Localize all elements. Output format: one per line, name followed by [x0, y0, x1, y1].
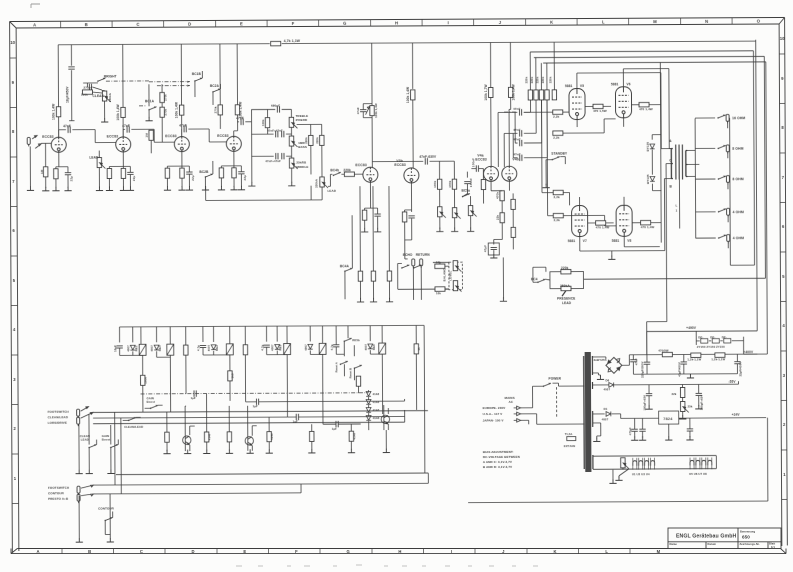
svg-text:470 1,5W: 470 1,5W — [593, 109, 607, 113]
svg-text:470µF: 470µF — [628, 427, 632, 435]
heater U7 — [702, 460, 706, 465]
svg-text:RE4: RE4 — [158, 345, 162, 351]
ground out cap — [686, 436, 693, 440]
potentiometer MIDDLE 25kRB — [289, 158, 297, 169]
resistor cathode V2a — [165, 168, 169, 178]
svg-text:100k 1,4W: 100k 1,4W — [175, 102, 179, 118]
cathode network V1b — [109, 152, 130, 169]
svg-text:ECC83: ECC83 — [394, 163, 405, 167]
svg-text:U.S.A.- 117 V: U.S.A.- 117 V — [483, 412, 503, 416]
ground bottom row — [163, 450, 170, 454]
wire screen supply bus — [649, 62, 661, 242]
potentiometer BASS 1MR — [289, 136, 297, 147]
jack footswitch 2a — [77, 486, 80, 495]
switch POWER — [548, 377, 561, 381]
wire fsw loop verticals — [115, 412, 122, 494]
svg-text:4xBY255: 4xBY255 — [593, 358, 606, 362]
svg-text:G: G — [343, 21, 346, 26]
svg-text:4148: 4148 — [352, 433, 356, 440]
svg-text:25kRB: 25kRB — [296, 160, 307, 164]
label presence lead — [557, 297, 575, 305]
wire echo column b — [372, 186, 374, 271]
svg-text:+400V: +400V — [743, 350, 754, 354]
svg-text:BC4: BC4 — [531, 277, 538, 281]
svg-text:N: N — [705, 19, 708, 24]
svg-text:270k: 270k — [164, 109, 168, 116]
cathode network V2a — [167, 152, 189, 169]
resistor 1k column — [184, 345, 188, 355]
svg-text:Datum: Datum — [708, 542, 717, 546]
relay RE1 — [139, 344, 146, 355]
svg-text:RE3: RE3 — [278, 344, 282, 350]
tube V5 5881 — [569, 89, 585, 120]
resistor cathode V2b 2 — [232, 168, 236, 178]
wire plate V1a — [58, 117, 60, 137]
ruler letters top — [33, 19, 761, 28]
potentiometer mixer c — [468, 206, 476, 217]
svg-text:1µF: 1µF — [253, 404, 258, 408]
wire mains to switch — [521, 386, 585, 424]
wire bus drop V4a — [490, 43, 492, 88]
svg-text:220k: 220k — [304, 137, 308, 144]
switch GAIN Boost mid — [147, 396, 155, 404]
svg-text:4,7µ: 4,7µ — [330, 344, 334, 350]
switch send — [401, 265, 409, 269]
svg-text:220k: 220k — [530, 76, 534, 83]
resistor bottom row 4 — [267, 432, 271, 442]
wire V3b cathode follower — [404, 183, 411, 212]
resistor echo a — [358, 271, 362, 281]
transformer mains primary — [583, 356, 586, 469]
capacitor 47nF bass b — [282, 131, 284, 137]
svg-text:A: A — [33, 22, 36, 27]
wire V6 plate to OT — [623, 69, 671, 149]
diode 4007 relay2 — [154, 345, 159, 350]
PI tail resistor 470k — [500, 191, 504, 201]
heater U2 — [639, 461, 643, 466]
ground BC2b — [202, 186, 209, 190]
ground cathode V2a b — [178, 186, 185, 190]
svg-text:D: D — [192, 549, 195, 554]
capacitor cathode V3a — [374, 214, 380, 216]
svg-text:1,2k-1,1W: 1,2k-1,1W — [711, 357, 725, 361]
wire OT secondary to jacks — [687, 118, 700, 238]
capacitor 10uF relay1 — [116, 346, 122, 348]
resistor R plate V1a 100k 1.4W — [56, 107, 60, 117]
svg-text:D: D — [188, 22, 191, 27]
switch RE5b — [344, 338, 352, 342]
heater U6 — [696, 460, 700, 465]
svg-text:250kA: 250kA — [314, 179, 318, 188]
svg-text:ECC83: ECC83 — [355, 163, 366, 167]
svg-text:100nF: 100nF — [471, 158, 475, 167]
ground mixer a — [436, 228, 443, 232]
svg-text:FOOTSWITCH: FOOTSWITCH — [48, 486, 69, 490]
capacitor 1uF a — [194, 390, 196, 396]
capacitor 47uF PI boxed — [491, 247, 497, 249]
rectifier bridge 4xBY255 — [606, 357, 622, 373]
switch BC4b — [333, 172, 341, 176]
wire plate V3b — [412, 100, 414, 168]
ground bottom row 2 — [203, 449, 210, 453]
diode 4148 stack d — [366, 416, 371, 421]
connector mains E — [514, 419, 521, 423]
capacitor 47nF coupling V1b — [123, 129, 125, 137]
transistor Q3 — [381, 415, 389, 424]
diode 4007 bias — [609, 382, 614, 387]
svg-text:2,2k: 2,2k — [553, 136, 559, 140]
ground echo c — [386, 298, 393, 302]
wire bright feed — [83, 83, 98, 87]
svg-text:100k 1,4W: 100k 1,4W — [374, 103, 378, 118]
diode 4007 relay3 — [211, 345, 216, 350]
svg-text:ENGL Gerätebau GmbH: ENGL Gerätebau GmbH — [676, 534, 736, 540]
svg-text:47nF: 47nF — [63, 124, 71, 128]
svg-text:100nF: 100nF — [469, 178, 473, 187]
svg-text:18µF/450V: 18µF/450V — [65, 86, 69, 103]
svg-text:47µF/450V: 47µF/450V — [677, 362, 681, 377]
ground bottom row 4 — [266, 449, 273, 453]
svg-text:ECC83: ECC83 — [107, 134, 118, 138]
svg-text:4007: 4007 — [150, 345, 154, 352]
svg-text:2,2k: 2,2k — [553, 115, 559, 119]
capacitor 47nF mid b — [282, 153, 284, 159]
transformer OT secondary — [686, 150, 688, 176]
tube V2b ECC83 — [226, 136, 241, 151]
svg-text:BASS: BASS — [298, 145, 307, 149]
ground cathode V2b c — [238, 186, 245, 190]
svg-text:C: C — [140, 549, 143, 554]
ground 24v caps — [631, 436, 638, 440]
transformer mains core — [585, 352, 592, 472]
capacitor cathode V2a — [186, 172, 192, 174]
jack 4 OHM a — [696, 211, 716, 213]
resistor 220k mixer b — [320, 135, 324, 145]
svg-text:Boost: Boost — [102, 437, 110, 441]
title block — [668, 528, 781, 549]
svg-text:22k: 22k — [495, 215, 499, 221]
capacitor 4.7uF relay6 — [333, 345, 339, 347]
potentiometer CLEAN 250kA — [102, 91, 110, 102]
svg-text:RETURN: RETURN — [416, 253, 430, 257]
wire cathodes power tubes — [577, 118, 624, 206]
capacitor 47nF coupling V2a — [181, 129, 183, 137]
resistor 220k grid common — [552, 90, 556, 100]
svg-text:4007: 4007 — [604, 387, 611, 391]
label footswitch 2 — [48, 486, 69, 501]
ground tail — [500, 297, 507, 301]
wire bus drop stage1 — [57, 45, 59, 107]
svg-text:10: 10 — [780, 36, 785, 41]
svg-text:BC5a: BC5a — [461, 189, 470, 193]
ground fsw stub b — [107, 538, 114, 542]
resistor cathode V2b — [219, 168, 223, 178]
resistor 220k grid V6 — [534, 90, 538, 100]
svg-text:BC2B: BC2B — [199, 170, 209, 174]
potentiometer LEVEL — [453, 281, 461, 292]
wire bus drop V3b — [412, 43, 414, 89]
wire -55V rail — [592, 381, 738, 385]
svg-text:4007: 4007 — [602, 417, 609, 421]
svg-text:4148: 4148 — [270, 433, 274, 440]
wire send line — [405, 258, 408, 260]
ground fsw jack sleeve — [76, 470, 83, 474]
wire plate V2a — [181, 115, 183, 136]
svg-text:1: 1 — [676, 209, 678, 213]
svg-text:STANDBY: STANDBY — [551, 152, 568, 156]
capacitor 18uF/450V — [70, 45, 72, 121]
wire power switch linkage — [556, 387, 558, 418]
tube V3b ECC83 — [404, 168, 419, 183]
resistor cathode V2a 2 — [180, 168, 184, 178]
capacitor 47nF plate V3a parallel — [360, 110, 366, 112]
resistor 100k 1.4W plate V4b — [508, 87, 512, 97]
svg-text:B: B — [88, 549, 91, 554]
capacitor 47nF bass a — [276, 131, 278, 137]
resistor 470R 1.4W screen V6 — [639, 102, 649, 106]
svg-text:47µF: 47µF — [483, 245, 487, 252]
transistor Q1 — [183, 436, 191, 445]
capacitor 47nF mid a — [276, 153, 278, 159]
svg-text:47nF+47nF: 47nF+47nF — [267, 129, 283, 133]
resistor 220k mixer a — [309, 135, 313, 145]
svg-text:47nF: 47nF — [122, 124, 130, 128]
wire contour lines — [93, 473, 428, 494]
resistor bottom row 6 — [349, 431, 353, 441]
svg-text:RE1: RE1 — [134, 345, 138, 351]
switch BC4 presence — [537, 279, 545, 283]
svg-text:220µF/500V: 220µF/500V — [640, 362, 644, 378]
svg-text:B: B — [85, 22, 88, 27]
capacitor 22uF V3b — [408, 216, 414, 218]
svg-text:47nF: 47nF — [513, 107, 520, 111]
switch fsw jack 2a — [81, 485, 93, 496]
svg-text:2,2k: 2,2k — [554, 195, 560, 199]
potentiometer bias 25k — [680, 401, 688, 412]
wire V5 grid — [568, 100, 570, 112]
jack 4 OHM b — [696, 237, 716, 239]
tube V3a ECC83 — [363, 167, 378, 182]
svg-text:4148: 4148 — [373, 408, 380, 412]
resistor bottom row 1 — [165, 432, 169, 442]
switch CLEAN/LEAD mid — [124, 425, 143, 429]
ground cathode V2b b — [230, 186, 237, 190]
resistor 2.2k gridstop V8 — [553, 213, 563, 217]
resistor 100k 1.7W plate V4a — [489, 87, 493, 97]
svg-text:4 OHM: 4 OHM — [733, 236, 744, 240]
svg-text:22k: 22k — [672, 392, 677, 396]
wire bus drop stage4a — [219, 44, 221, 105]
ground middle pot — [288, 182, 295, 186]
wire bus drop V4b — [509, 42, 511, 87]
potentiometer BALANCE — [453, 261, 461, 272]
wire plate V1b — [122, 117, 124, 136]
switch Reset A — [340, 361, 348, 365]
svg-text:270k: 270k — [213, 106, 217, 113]
wire V7 plate to OT — [579, 179, 671, 251]
ground bottom row 5 — [308, 449, 315, 453]
sheet border bottom band — [11, 549, 786, 554]
resistor 100k mixer V3 a — [437, 179, 441, 189]
diode BY135 lower — [650, 177, 655, 182]
capacitor 22uF/450V — [734, 362, 740, 364]
svg-text:Name: Name — [670, 542, 678, 546]
capacitor 1uF b — [256, 399, 258, 405]
ground regulator — [668, 424, 670, 437]
wire echo column c — [388, 186, 390, 271]
svg-text:JAPAN- 100 V: JAPAN- 100 V — [483, 418, 504, 422]
wire relay bottom rail — [116, 473, 428, 475]
svg-text:47nF: 47nF — [236, 116, 244, 120]
svg-text:470k: 470k — [495, 192, 499, 199]
svg-text:ECC83: ECC83 — [475, 158, 486, 162]
svg-text:BIAS ADJUSTMENT:: BIAS ADJUSTMENT: — [483, 450, 514, 454]
svg-text:Reset B: Reset B — [348, 368, 352, 378]
PI tail resistor 22k — [500, 213, 504, 223]
svg-text:A AND C: 3,1V-3,7V: A AND C: 3,1V-3,7V — [483, 460, 512, 464]
heater U3 — [645, 461, 649, 466]
wire HT secondary — [592, 357, 606, 375]
resistor 100k bright — [82, 90, 92, 94]
svg-text:10µF: 10µF — [113, 345, 117, 352]
resistor bottom row 5 — [310, 431, 314, 441]
label footswitch 1 — [48, 410, 69, 425]
svg-text:7824: 7824 — [663, 416, 673, 421]
svg-text:V7: V7 — [583, 239, 587, 243]
svg-text:V6: V6 — [626, 82, 630, 86]
svg-text:4148: 4148 — [207, 433, 211, 440]
switch BC5a — [462, 193, 470, 197]
wire footswitch lines — [93, 411, 428, 424]
jack 16 OHM — [695, 117, 715, 119]
capacitor 100nF — [464, 182, 470, 184]
switch BC4a — [344, 268, 352, 272]
svg-text:220k: 220k — [315, 137, 319, 144]
svg-text:1k: 1k — [417, 347, 421, 351]
ruler numbers left and right — [10, 36, 787, 481]
svg-text:250kA: 250kA — [560, 284, 571, 288]
diode ZY150 a — [701, 339, 708, 343]
svg-text:V5: V5 — [580, 84, 584, 88]
tube V1b ECC83 — [116, 137, 131, 152]
svg-text:EUROPE- 230V: EUROPE- 230V — [483, 406, 506, 410]
resistor cathode V1b — [107, 168, 111, 178]
jack footswitch 1b — [77, 417, 80, 426]
ground PI — [490, 254, 497, 258]
capacitor 47nF coupling V1a out — [59, 130, 66, 138]
wire echo column a — [359, 186, 361, 271]
resistor 2.2k gridstop V6 — [553, 131, 563, 135]
wire heater rail top — [593, 456, 716, 470]
svg-text:22µ: 22µ — [191, 175, 195, 181]
wire bus drop stage2 — [122, 44, 124, 107]
wire plates PI — [491, 97, 511, 166]
wire relay rail drops — [119, 325, 416, 345]
svg-text:180µF+63V: 180µF+63V — [643, 395, 647, 411]
tube V1a ECC83 — [51, 137, 66, 152]
wire 24V secondary — [593, 414, 605, 439]
cathode network V1a — [56, 152, 68, 169]
resistor 270k stage3 grid a — [160, 93, 164, 103]
switch BC1a — [148, 106, 156, 110]
wire tail column — [502, 257, 504, 298]
resistor 100k PI bias — [511, 199, 515, 209]
resistor 100k col1 low — [141, 375, 145, 385]
transformer OT core — [676, 144, 683, 179]
capacitor 47nF coupling V2b to tonestack — [238, 121, 239, 123]
switch BRIGHT — [97, 78, 105, 82]
box presence — [550, 272, 584, 289]
capacitor 180uF+63V bias a — [646, 394, 652, 396]
resistor 22k bias — [680, 387, 684, 397]
resistor 100k 1.4W plate V3b — [411, 90, 415, 100]
svg-text:BRIGHT: BRIGHT — [104, 75, 117, 79]
svg-text:I: I — [451, 549, 452, 554]
wire B+ to OT center — [646, 164, 672, 355]
svg-text:I: I — [448, 20, 449, 25]
svg-text:DE-: DE- — [722, 335, 727, 339]
svg-text:BC1A: BC1A — [145, 99, 155, 103]
svg-text:220k: 220k — [541, 76, 545, 83]
resistor 1M PI grid — [481, 180, 485, 190]
svg-text:K: K — [550, 20, 553, 25]
capacitor cathode V2b — [238, 172, 244, 174]
wire bus drop stage4 — [236, 44, 238, 105]
ground BC1a — [145, 117, 152, 121]
svg-text:1k8: 1k8 — [231, 373, 235, 378]
svg-text:B AND D: 3,1V-3,7V: B AND D: 3,1V-3,7V — [483, 465, 512, 469]
resistor cathode V3a — [362, 210, 366, 220]
svg-text:2,2k: 2,2k — [554, 218, 560, 222]
svg-text:270pF: 270pF — [83, 86, 92, 90]
potentiometer hum balance — [621, 458, 629, 469]
svg-text:LORS/DRIVE: LORS/DRIVE — [48, 421, 67, 425]
svg-text:25k: 25k — [688, 404, 693, 408]
ground bottom row 3 — [226, 449, 233, 453]
ground mixer b — [451, 227, 458, 231]
capacitor 470uF 24v a — [631, 429, 637, 431]
svg-text:H: H — [398, 549, 401, 554]
svg-text:BC4A: BC4A — [340, 264, 350, 268]
svg-text:680pF: 680pF — [271, 104, 280, 108]
node grid wire to tube — [50, 142, 52, 144]
resistor 270k stage3 grid b — [160, 107, 164, 117]
relay RE4 — [167, 344, 174, 355]
wire +490V rail — [645, 40, 757, 355]
diode 4148 stack a — [366, 392, 371, 397]
diode 4007 relay6 — [368, 344, 373, 349]
svg-text:K: K — [553, 549, 556, 554]
ground bridge — [598, 375, 600, 377]
potentiometer mixer a — [438, 207, 446, 218]
jack footswitch 1a — [77, 409, 80, 418]
wire feedback nested line 1 — [530, 51, 754, 266]
svg-text:1µF: 1µF — [332, 427, 337, 431]
wire fsw stubs — [79, 494, 110, 540]
svg-text:8 OHM: 8 OHM — [732, 177, 743, 181]
svg-text:V8: V8 — [627, 239, 631, 243]
resistor 100k reset — [356, 376, 360, 386]
svg-text:5881: 5881 — [612, 239, 620, 243]
wire OT bottom — [678, 180, 680, 229]
capacitor 47nF PI out upper B — [520, 130, 522, 136]
resistor 2.2k gridstop V5 — [524, 111, 553, 113]
svg-text:Reset A: Reset A — [334, 362, 338, 372]
resistor 100k plate V3a — [370, 106, 374, 116]
svg-text:10k: 10k — [436, 260, 441, 264]
ground 24v caps b — [639, 436, 646, 440]
wire bus drop V3a — [371, 43, 373, 101]
